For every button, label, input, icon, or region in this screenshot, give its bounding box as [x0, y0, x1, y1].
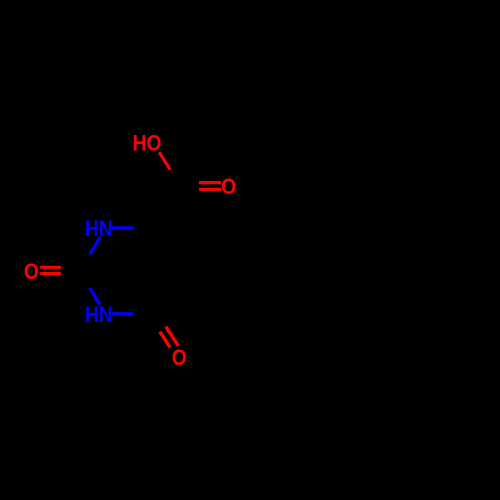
svg-text:O: O — [24, 260, 39, 285]
bond N3-C4 blue half (horizontal) — [112, 312, 134, 315]
bond C2=O double bond (horizontal pair) — [40, 266, 61, 269]
bond C2-N3 blue half (diagonal) — [90, 288, 100, 305]
bond N1-C2 blue half (diagonal) — [90, 237, 101, 254]
wire C6-COOH carbon — [163, 187, 177, 229]
svg-text:HN: HN — [85, 303, 113, 328]
wire C5-C4 — [163, 271, 188, 314]
wire C6-N1 black half — [134, 226, 163, 229]
bond N1-C6 blue half (horizontal) — [112, 226, 134, 229]
bond O(H)-C red half, diagonal — [159, 152, 170, 170]
svg-text:O: O — [221, 174, 236, 199]
bond C4=O double bond (diagonal pair) — [166, 327, 179, 346]
wire C6-C5 — [163, 228, 188, 271]
svg-text:O: O — [172, 346, 187, 371]
bond C=O carboxyl double bond (horizontal pair) — [199, 181, 221, 184]
svg-text:HO: HO — [133, 131, 162, 156]
invisible carbon skeleton (black on black): ring C4-C5, C5-C6, C6-COOH, chain — [134, 187, 188, 314]
